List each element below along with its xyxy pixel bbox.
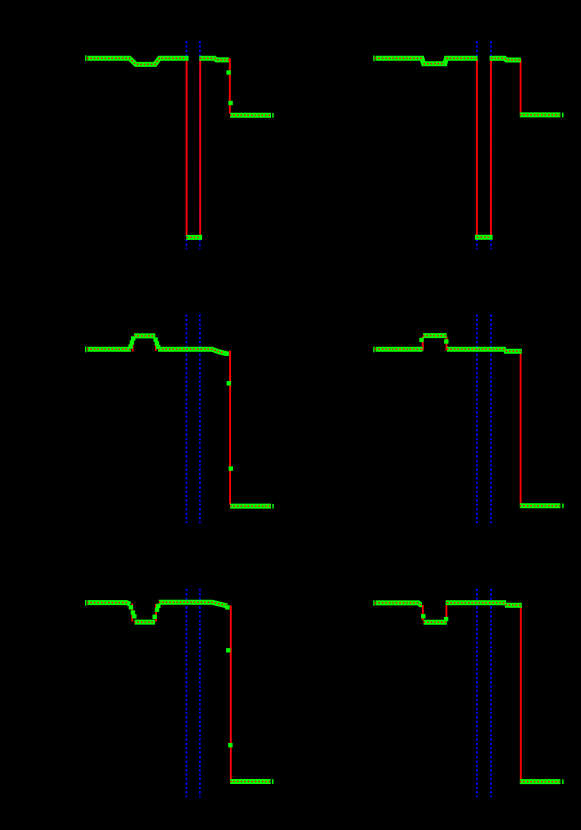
red dotted model lower baseline P5 — [230, 781, 270, 783]
green drop markers P5 — [226, 648, 230, 652]
green data post-egress segment P2 — [490, 58, 521, 60]
green data dip bottom P6 — [424, 620, 447, 625]
green dip edge markers P5 — [129, 605, 133, 609]
green trailing tick P1 — [272, 113, 274, 118]
green trailing tick P3 — [272, 504, 274, 509]
green leading tick P3 — [85, 347, 86, 353]
red dotted model lower baseline P6 — [520, 781, 560, 783]
green data eclipse bottom P1 — [186, 235, 202, 240]
blue dashed egress line P6 — [490, 589, 492, 798]
blue dashed egress line P4 — [490, 315, 492, 524]
green leading tick P5 — [85, 600, 86, 606]
red solid dip edge right P2 — [445, 59, 447, 64]
blue dashed egress line P2 — [490, 41, 492, 249]
green data baseline pre-dip P6 — [376, 603, 422, 605]
blue dashed ingress line P1 — [186, 41, 188, 249]
green data lower baseline P6 — [520, 779, 561, 784]
green pre-drop marker P5 — [225, 605, 229, 609]
red solid model drop vertical P4 — [520, 352, 522, 504]
green trailing tick P5 — [272, 779, 274, 784]
blue dashed egress line P3 — [199, 315, 201, 524]
green trailing tick P4 — [562, 504, 564, 509]
red dotted model baseline P2 — [375, 58, 477, 64]
red solid model ingress vertical P2 — [476, 59, 478, 236]
green data post-egress segment P1 — [199, 58, 229, 60]
red solid model drop vertical P6 — [520, 607, 522, 780]
red solid model drop vertical P5 — [230, 606, 232, 780]
red dotted model lower baseline P2 — [520, 114, 560, 116]
red solid bump edge left P4 — [422, 337, 424, 351]
red solid dip edge right P6 — [445, 606, 447, 621]
red dotted model baseline P4 — [375, 336, 521, 352]
green drop markers P3 — [227, 381, 231, 385]
green data baseline pre-dip P5 — [87, 603, 130, 605]
green data lower baseline P3 — [230, 504, 271, 509]
blue dashed ingress line P6 — [476, 589, 478, 798]
red solid model drop vertical P3 — [229, 351, 231, 505]
blue dashed egress line P1 — [199, 41, 201, 249]
red solid dip edge left P2 — [421, 59, 423, 64]
red solid dip edge right P5 — [155, 604, 157, 622]
red solid bump edge right P4 — [446, 337, 448, 351]
green data baseline with dip P1 — [87, 58, 188, 64]
red solid model egress vertical P1 — [199, 59, 201, 236]
green drop markers P1 — [226, 70, 230, 74]
red dotted model baseline P1 — [87, 58, 187, 64]
red solid bump edge right P3 — [155, 338, 157, 352]
green leading tick P2 — [373, 56, 374, 62]
green data baseline post-dip P6 — [446, 600, 507, 605]
green data lower baseline P5 — [230, 779, 271, 784]
green trailing tick P2 — [562, 113, 564, 118]
green bump edge markers P4 — [419, 338, 423, 342]
red solid dip edge left P5 — [131, 604, 133, 622]
green leading tick P4 — [373, 347, 374, 353]
green data baseline with dip P2 — [376, 58, 478, 64]
red dotted model eclipse bottom P1 — [187, 236, 201, 238]
blue dashed ingress line P5 — [186, 589, 188, 798]
red solid model ingress vertical P1 — [186, 59, 188, 236]
red solid dip edge left P6 — [422, 605, 424, 621]
green data baseline with bump P4 — [376, 336, 506, 350]
green bump edge markers P3 — [128, 344, 132, 348]
red dotted model baseline P3 — [87, 336, 229, 354]
green data pre-drop step P4 — [504, 349, 522, 354]
blue dashed ingress line P2 — [476, 41, 478, 249]
red dotted model post-egress P2 — [491, 58, 521, 60]
red solid model drop vertical P2 — [520, 60, 522, 114]
red dotted model post-egress P1 — [200, 58, 230, 60]
green data baseline with bump P3 — [87, 336, 227, 354]
green leading tick P6 — [373, 600, 374, 606]
green data baseline post-dip P5 — [159, 602, 227, 606]
green data pre-drop step P6 — [505, 603, 522, 608]
blue dashed egress line P5 — [199, 589, 201, 798]
green pre-drop marker P3 — [225, 352, 229, 356]
red dotted model lower baseline P3 — [230, 505, 270, 507]
green dip edge markers P6 — [421, 614, 425, 618]
red solid bump edge left P3 — [132, 338, 134, 352]
green data dip bottom P5 — [135, 620, 156, 625]
red solid model egress vertical P2 — [490, 59, 492, 236]
red dotted model lower baseline P4 — [520, 505, 560, 507]
green leading tick P1 — [85, 55, 86, 61]
red dotted model eclipse bottom P2 — [477, 236, 491, 238]
green data lower baseline P1 — [230, 113, 271, 118]
green data lower baseline P2 — [520, 112, 561, 117]
red dotted model baseline P6 — [375, 603, 521, 623]
red solid model drop vertical P1 — [229, 58, 231, 113]
blue dashed ingress line P3 — [186, 315, 188, 524]
blue dashed ingress line P4 — [476, 315, 478, 524]
green data lower baseline P4 — [520, 503, 561, 508]
red dotted model baseline P5 — [87, 602, 230, 622]
green trailing tick P6 — [562, 779, 564, 784]
green data eclipse bottom P2 — [475, 235, 493, 240]
red dotted model lower baseline P1 — [230, 114, 270, 116]
